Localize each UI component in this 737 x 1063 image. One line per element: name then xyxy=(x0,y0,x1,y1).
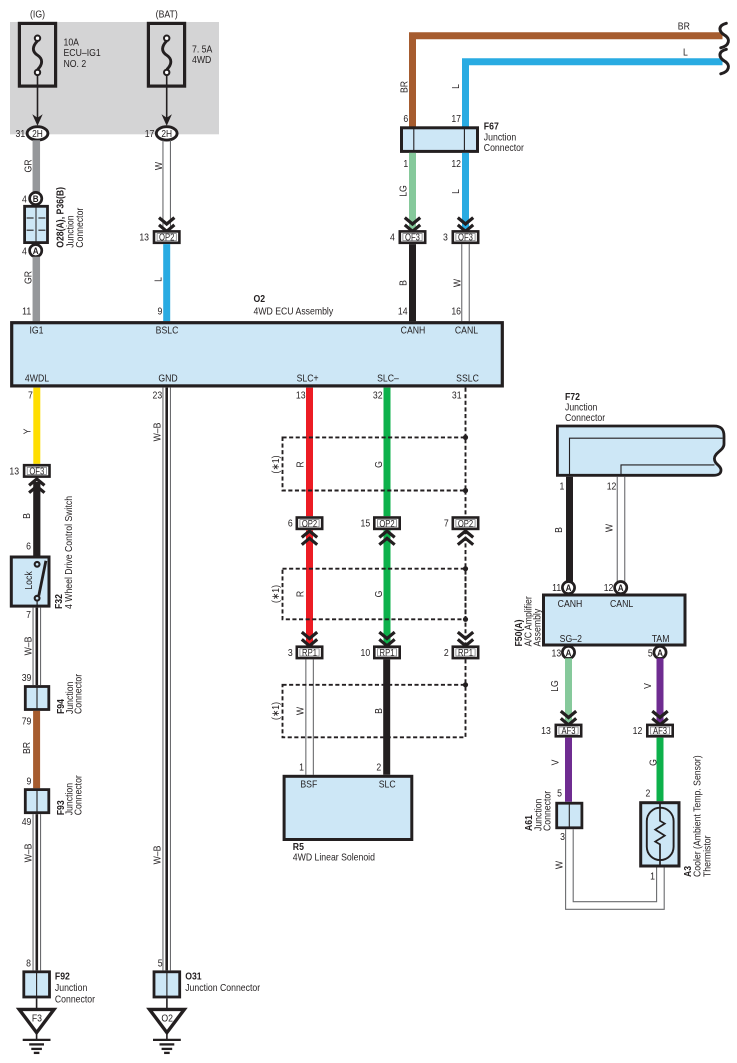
svg-text:Connector: Connector xyxy=(55,994,96,1006)
svg-text:A: A xyxy=(566,647,572,658)
arrow into RP1 pin 10 xyxy=(379,632,394,646)
svg-text:Assembly: Assembly xyxy=(532,609,544,647)
svg-text:GND: GND xyxy=(158,373,177,385)
svg-text:O2: O2 xyxy=(161,1013,173,1025)
svg-text:Lock: Lock xyxy=(23,571,35,590)
svg-text:11: 11 xyxy=(552,582,561,594)
svg-text:31: 31 xyxy=(16,128,26,140)
junction connector O28(A) P36(B) pin B xyxy=(30,192,42,204)
wire W-B from switch to F94 xyxy=(32,608,34,686)
svg-text:Thermistor: Thermistor xyxy=(702,835,714,877)
svg-text:OP2: OP2 xyxy=(302,518,317,529)
svg-text:11: 11 xyxy=(22,306,31,318)
svg-text:12: 12 xyxy=(451,158,461,170)
label F72 Junction Connector xyxy=(565,391,606,424)
wire G from AF3 to A3 xyxy=(657,738,664,802)
svg-text:OF3: OF3 xyxy=(29,465,44,476)
svg-text:L: L xyxy=(450,84,462,89)
svg-text:W: W xyxy=(554,860,566,869)
label R5 4WD Linear Solenoid xyxy=(293,841,375,864)
svg-text:13: 13 xyxy=(139,232,149,244)
ground F3 xyxy=(19,1009,54,1053)
connector 2H pin 17 xyxy=(156,127,177,141)
svg-text:B: B xyxy=(21,513,33,519)
svg-text:3: 3 xyxy=(560,831,565,843)
svg-text:RP1: RP1 xyxy=(302,647,317,658)
arrow into OP2 pin 13 xyxy=(159,218,174,232)
svg-text:(∗1): (∗1) xyxy=(270,702,282,720)
svg-text:12: 12 xyxy=(633,725,643,737)
svg-text:BSF: BSF xyxy=(300,779,317,791)
junction connector F93 xyxy=(25,790,49,813)
svg-text:6: 6 xyxy=(26,541,31,553)
arrow into AF3 pin 12 xyxy=(652,711,667,725)
svg-text:OP2: OP2 xyxy=(458,518,473,529)
svg-text:79: 79 xyxy=(22,716,32,728)
svg-text:49: 49 xyxy=(22,816,32,828)
connector AF3 pin 12 xyxy=(647,725,672,737)
svg-text:14: 14 xyxy=(398,306,408,318)
svg-text:A: A xyxy=(566,582,572,593)
svg-text:(∗1): (∗1) xyxy=(270,456,282,474)
svg-text:L: L xyxy=(153,277,165,282)
svg-text:BR: BR xyxy=(399,81,411,93)
svg-text:12: 12 xyxy=(604,582,614,594)
wire W from OF3 to ECU pin 16 xyxy=(461,244,463,321)
svg-text:Y: Y xyxy=(22,428,34,434)
svg-text:5: 5 xyxy=(158,958,163,970)
svg-text:17: 17 xyxy=(451,113,461,125)
shield junction dot bottom right box1 xyxy=(463,488,468,493)
wire B from F72 to F50 CANH xyxy=(566,477,573,582)
shield junction dot top right box3 xyxy=(463,682,468,687)
svg-text:G: G xyxy=(373,591,385,598)
wire BR from CAN junction xyxy=(413,36,723,127)
junction connector O28(A), P36(B) xyxy=(25,206,48,242)
arrow into OF3 pin 4 xyxy=(405,218,420,232)
svg-text:4 Wheel Drive Control Switch: 4 Wheel Drive Control Switch xyxy=(63,496,75,609)
svg-text:BR: BR xyxy=(678,21,690,33)
arrow below OP2 pin 6 xyxy=(302,531,317,545)
arrow into RP1 pin 3 xyxy=(302,632,317,646)
wire W from RP1 to solenoid BSF xyxy=(305,659,307,774)
junction connector F94 xyxy=(25,687,49,710)
connector OF3 pin 4 xyxy=(400,231,425,243)
svg-text:2: 2 xyxy=(376,762,381,774)
svg-text:GR: GR xyxy=(23,271,35,284)
connector A pin 12 xyxy=(615,582,627,594)
svg-text:1: 1 xyxy=(650,871,655,883)
svg-text:G: G xyxy=(373,461,385,468)
svg-text:3: 3 xyxy=(288,647,293,659)
svg-text:B: B xyxy=(553,527,565,533)
junction connector A61 xyxy=(557,803,582,828)
4WD Linear Solenoid R5 xyxy=(284,776,412,839)
svg-text:CANL: CANL xyxy=(455,325,479,337)
wire G from OP2 to RP1 xyxy=(384,530,391,645)
svg-text:1: 1 xyxy=(403,158,408,170)
svg-text:23: 23 xyxy=(153,390,163,402)
shield box 3 xyxy=(283,685,466,738)
svg-text:L: L xyxy=(683,47,688,59)
arrow into OF3 pin 3 xyxy=(458,218,473,232)
svg-text:AF3: AF3 xyxy=(653,725,667,736)
svg-text:5: 5 xyxy=(557,788,562,800)
break symbol L wire xyxy=(720,49,729,74)
connector OP2 pin 13 xyxy=(154,231,179,243)
svg-text:G: G xyxy=(648,759,660,766)
power source area background xyxy=(10,22,219,134)
svg-text:(∗1): (∗1) xyxy=(270,585,282,603)
thermistor A3 Cooler Ambient Temp Sensor xyxy=(641,803,679,868)
svg-text:17: 17 xyxy=(145,128,155,140)
svg-text:B: B xyxy=(398,280,410,286)
fuse F2 (BAT) 7.5A 4WD xyxy=(148,9,212,86)
svg-text:CANH: CANH xyxy=(558,598,583,610)
svg-text:W–B: W–B xyxy=(152,423,164,442)
wire B from OF3 to ECU pin 14 xyxy=(409,244,416,321)
svg-text:OF3: OF3 xyxy=(405,232,420,243)
svg-text:Connector: Connector xyxy=(565,412,606,424)
wire W from A61 pin 3 to A3 pin 1 xyxy=(566,829,665,909)
break symbol BR wire xyxy=(720,23,729,48)
wire LG from F67 pin 1 xyxy=(409,153,416,230)
svg-text:OF3: OF3 xyxy=(458,232,473,243)
svg-text:TAM: TAM xyxy=(652,633,670,645)
svg-text:2: 2 xyxy=(645,788,650,800)
svg-text:1: 1 xyxy=(299,762,304,774)
svg-text:8: 8 xyxy=(26,958,31,970)
junction connector O28 pin A xyxy=(30,245,42,257)
label F50(A) A/C Amplifier Assembly xyxy=(513,596,543,647)
shield wire dashed between box1 and OP2 xyxy=(465,491,467,517)
connector OP2 pin 7 xyxy=(453,518,478,530)
svg-text:L: L xyxy=(450,189,462,194)
wire Y from ECU 4WDL to OF3 xyxy=(33,388,40,464)
switch F32 4 Wheel Drive Control Switch xyxy=(11,557,49,606)
svg-text:Connector: Connector xyxy=(484,142,525,154)
connector OP2 pin 6 xyxy=(297,518,322,530)
svg-text:BR: BR xyxy=(21,742,33,754)
label A61 Junction Connector xyxy=(523,790,553,831)
svg-text:6: 6 xyxy=(403,113,408,125)
svg-text:5: 5 xyxy=(648,648,653,660)
svg-text:Connector: Connector xyxy=(73,774,85,815)
arrow below OP2 pin 15 xyxy=(379,531,394,545)
svg-text:W: W xyxy=(604,523,616,532)
svg-text:4WD: 4WD xyxy=(192,54,211,66)
arrow below OP2 pin 7 xyxy=(458,531,473,545)
svg-text:2H: 2H xyxy=(161,128,172,140)
svg-text:NO. 2: NO. 2 xyxy=(64,58,87,70)
arrow below OF3 pin 13 xyxy=(29,479,44,493)
label F93 Junction Connector xyxy=(55,774,85,815)
connector A pin 5 xyxy=(654,646,666,658)
svg-text:V: V xyxy=(642,683,654,689)
svg-text:F3: F3 xyxy=(32,1013,42,1025)
svg-text:R: R xyxy=(295,591,307,597)
shield junction dot bottom right box2 xyxy=(463,617,468,622)
wire BR from F94 to F93 xyxy=(33,711,40,788)
svg-text:RP1: RP1 xyxy=(458,647,473,658)
svg-text:W: W xyxy=(295,706,307,715)
svg-text:W: W xyxy=(452,278,464,287)
shield junction dot top right box2 xyxy=(463,566,468,571)
svg-text:V: V xyxy=(550,759,562,765)
svg-text:9: 9 xyxy=(27,776,32,788)
wire R from ECU SLC+ to OP2 xyxy=(306,388,313,517)
wire GR from O28 to ECU pin 11 xyxy=(33,257,41,322)
svg-text:7: 7 xyxy=(28,390,33,402)
svg-text:7: 7 xyxy=(26,609,31,621)
svg-text:Junction Connector: Junction Connector xyxy=(185,982,261,994)
svg-text:12: 12 xyxy=(607,481,617,493)
svg-text:A: A xyxy=(33,245,39,256)
junction connector F67 xyxy=(402,113,478,170)
svg-text:4WDL: 4WDL xyxy=(25,373,50,385)
connector AF3 pin 13 xyxy=(556,725,581,737)
svg-text:4: 4 xyxy=(22,246,27,258)
svg-text:Junction: Junction xyxy=(55,982,87,994)
svg-text:F92: F92 xyxy=(55,971,70,983)
wire W from F72 to F50 CANL xyxy=(616,477,618,582)
wire W from 2H to connector OP2 xyxy=(162,140,164,230)
connector A pin 11 xyxy=(562,582,574,594)
connector OF3 pin 13 xyxy=(24,465,49,477)
svg-text:31: 31 xyxy=(452,390,462,402)
wire to ground F3 xyxy=(36,998,38,1009)
junction connector F92 xyxy=(24,972,50,997)
svg-text:SLC+: SLC+ xyxy=(297,373,319,385)
label O28(A), P36(B) Junction Connector xyxy=(55,187,86,248)
svg-text:BSLC: BSLC xyxy=(156,325,179,337)
svg-text:4: 4 xyxy=(390,232,395,244)
svg-text:15: 15 xyxy=(361,518,371,530)
wire L from OP2 to ECU pin 9 xyxy=(163,244,170,321)
svg-text:LG: LG xyxy=(398,185,410,197)
svg-text:RP1: RP1 xyxy=(380,647,395,658)
svg-text:9: 9 xyxy=(157,306,162,318)
junction connector O31 xyxy=(154,972,180,997)
wire R from OP2 to RP1 xyxy=(306,530,313,645)
shield box 2 xyxy=(283,569,466,620)
svg-text:13: 13 xyxy=(541,725,551,737)
svg-text:6: 6 xyxy=(288,518,293,530)
svg-text:SSLC: SSLC xyxy=(456,373,479,385)
svg-text:CANH: CANH xyxy=(401,325,426,337)
wire W-B from ECU GND to O31 xyxy=(162,388,164,971)
svg-text:10: 10 xyxy=(361,647,371,659)
connector 2H pin 31 xyxy=(27,127,48,141)
wire V from AF3 to A61 xyxy=(565,738,572,802)
label F32 4 Wheel Drive Control Switch xyxy=(53,496,75,609)
svg-text:4WD ECU Assembly: 4WD ECU Assembly xyxy=(254,306,334,318)
arrow into RP1 pin 2 xyxy=(458,632,473,646)
connector RP1 pin 3 xyxy=(297,647,322,659)
svg-text:O31: O31 xyxy=(185,971,202,983)
svg-text:1: 1 xyxy=(560,481,565,493)
wire LG from F50 SG-2 to AF3 xyxy=(565,658,572,723)
svg-text:W–B: W–B xyxy=(23,637,35,656)
ground O2 xyxy=(150,1009,185,1053)
svg-text:OP2: OP2 xyxy=(159,232,174,243)
wire from fuse IG to connector 2H xyxy=(37,75,39,118)
svg-text:A: A xyxy=(618,582,624,593)
wire B from RP1 to solenoid SLC xyxy=(383,659,390,774)
wire B from OF3 to 4WD switch xyxy=(33,482,40,556)
svg-text:Connector: Connector xyxy=(74,207,86,248)
svg-text:OP2: OP2 xyxy=(379,518,394,529)
wire G from ECU SLC- to OP2 xyxy=(384,388,391,517)
svg-text:AF3: AF3 xyxy=(561,725,575,736)
svg-text:13: 13 xyxy=(552,648,562,660)
label F94 Junction Connector xyxy=(55,673,85,714)
svg-text:4: 4 xyxy=(22,194,27,206)
svg-text:7: 7 xyxy=(444,518,449,530)
junction connector F72 bus xyxy=(557,426,724,475)
svg-text:16: 16 xyxy=(451,306,461,318)
label O31 Junction Connector xyxy=(185,971,261,995)
svg-text:A: A xyxy=(657,647,663,658)
svg-text:W–B: W–B xyxy=(152,846,164,865)
wire V from F50 TAM to AF3 xyxy=(657,658,664,723)
svg-text:IG1: IG1 xyxy=(29,325,43,337)
shield wire SSLC dashed upper xyxy=(465,388,467,438)
svg-text:2H: 2H xyxy=(32,128,43,140)
A/C Amplifier Assembly F50(A) xyxy=(544,595,686,645)
svg-text:SLC: SLC xyxy=(379,779,396,791)
svg-text:(IG): (IG) xyxy=(30,9,45,21)
svg-text:R: R xyxy=(295,461,307,467)
label A3 Cooler (Ambient Temp. Sensor) Thermistor xyxy=(682,755,713,877)
svg-text:CANL: CANL xyxy=(610,598,634,610)
svg-text:B: B xyxy=(373,708,385,714)
connector A pin 13 xyxy=(562,646,574,658)
svg-text:4WD Linear Solenoid: 4WD Linear Solenoid xyxy=(293,852,375,864)
wire W-B from F93 to F92 xyxy=(32,814,34,970)
svg-text:GR: GR xyxy=(23,159,35,172)
connector OP2 pin 15 xyxy=(374,518,399,530)
svg-text:(BAT): (BAT) xyxy=(156,9,178,21)
wire L from CAN junction xyxy=(466,62,723,127)
shield junction dot top right box1 xyxy=(463,435,468,440)
svg-text:W–B: W–B xyxy=(23,844,35,863)
svg-text:13: 13 xyxy=(296,390,306,402)
wire L from F67 pin 12 xyxy=(462,153,469,230)
svg-text:O2: O2 xyxy=(254,293,266,305)
svg-text:39: 39 xyxy=(22,672,32,684)
connector RP1 pin 10 xyxy=(374,647,399,659)
connector OF3 pin 3 xyxy=(453,231,478,243)
svg-text:SG–2: SG–2 xyxy=(560,633,582,645)
shield wire dashed below RP1 xyxy=(465,659,467,684)
svg-text:Connector: Connector xyxy=(73,673,85,714)
svg-text:13: 13 xyxy=(9,466,19,478)
wire to ground O2 xyxy=(166,998,168,1009)
4WD ECU Assembly O2 xyxy=(12,293,503,386)
label F92 Junction Connector xyxy=(55,971,96,1006)
arrow into AF3 pin 13 xyxy=(561,711,576,725)
svg-text:SLC–: SLC– xyxy=(377,373,399,385)
svg-text:Connector: Connector xyxy=(542,790,554,831)
svg-text:W: W xyxy=(153,161,165,170)
svg-text:32: 32 xyxy=(373,390,383,402)
label F67 Junction Connector xyxy=(484,121,525,154)
wire GR from 2H to junction O28 pin B xyxy=(33,140,41,192)
svg-text:2: 2 xyxy=(444,647,449,659)
fuse F1 (IG) 10A ECU-IG1 NO. 2 xyxy=(19,9,100,86)
svg-text:3: 3 xyxy=(443,232,448,244)
connector RP1 pin 2 xyxy=(453,647,478,659)
svg-text:LG: LG xyxy=(549,680,561,692)
shield box 1 xyxy=(283,437,466,490)
shield wire dashed from OP2 to RP1 xyxy=(465,530,467,645)
wire from fuse BAT to connector 2H xyxy=(166,75,168,118)
svg-text:B: B xyxy=(33,193,39,204)
